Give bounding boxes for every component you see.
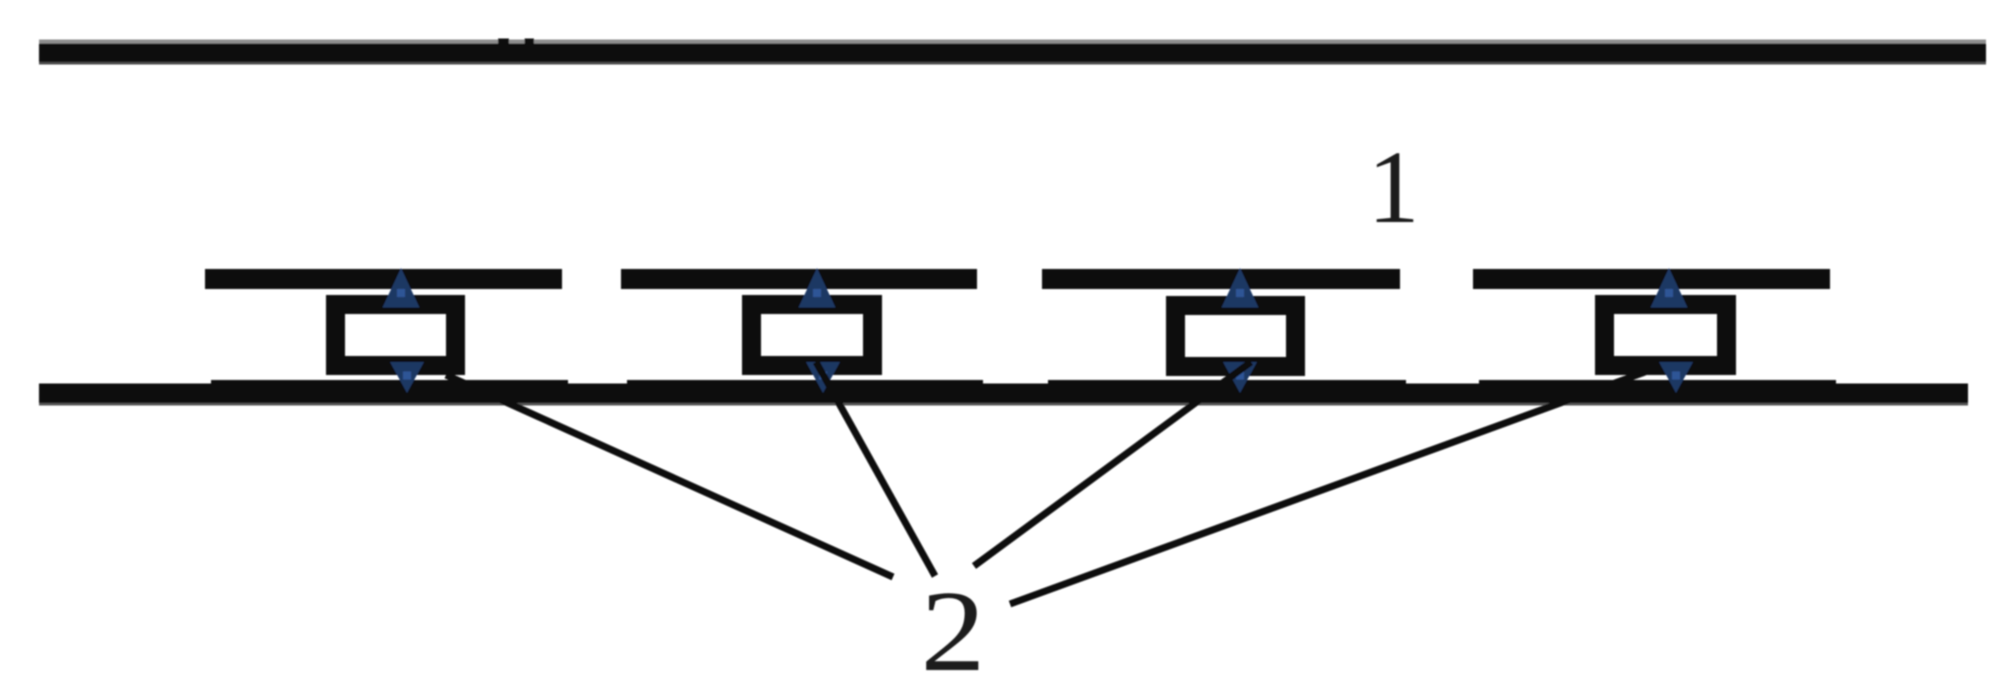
up arrow 2 — [799, 268, 836, 308]
lower electrode bar segment 1 — [211, 380, 568, 400]
component box 3 — [1166, 296, 1305, 376]
component box 2 — [742, 295, 882, 375]
upper electrode bar segment 4 — [1473, 269, 1830, 289]
lower electrode bar segment 4 — [1479, 380, 1836, 400]
leader line from unit 4 to label 2 — [1010, 372, 1645, 604]
component box 1 — [326, 295, 465, 375]
svg-text:1: 1 — [1368, 130, 1420, 245]
lower electrode bar segment 2 — [627, 380, 983, 400]
bottom plate line (layer 2 boundary) — [39, 384, 1968, 406]
top plate line (layer 1 upper boundary) — [39, 40, 1986, 65]
leader line from unit 3 to label 2 — [974, 362, 1251, 566]
leader line from unit 2 to label 2 — [816, 362, 935, 576]
upper electrode bar segment 3 — [1042, 269, 1400, 289]
lower electrode bar segment 3 — [1048, 380, 1406, 400]
small mark b on top plate — [525, 39, 535, 45]
upper electrode bar segment 2 — [621, 269, 977, 289]
up arrow 4 — [1651, 268, 1688, 308]
down arrow 2 — [806, 362, 840, 393]
upper electrode bar segment 1 — [205, 269, 562, 289]
down arrow 3 — [1223, 362, 1257, 393]
svg-text:2: 2 — [921, 566, 986, 695]
small mark a on top plate — [498, 39, 509, 45]
up arrow 1 — [383, 268, 420, 308]
leader line from unit 1 to label 2 — [446, 375, 893, 577]
down arrow 4 — [1659, 362, 1693, 393]
up arrow 3 — [1222, 268, 1259, 308]
down arrow 1 — [390, 362, 424, 393]
component box 4 — [1595, 295, 1736, 375]
label 2 — [921, 566, 986, 695]
